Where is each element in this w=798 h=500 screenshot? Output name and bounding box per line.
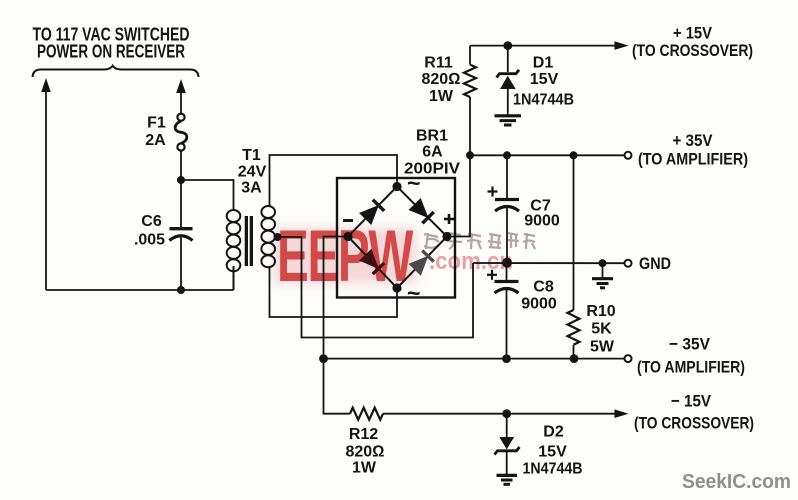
label F1 2A <box>145 115 166 150</box>
wire: secondary top to bridge AC top <box>270 155 398 207</box>
svg-text:1N4744B: 1N4744B <box>513 92 574 109</box>
svg-text:R11: R11 <box>424 55 453 72</box>
arrow head right input <box>176 79 186 93</box>
label C8 9000 <box>521 279 557 313</box>
junction dot D2 top <box>502 409 511 418</box>
svg-text:200PIV: 200PIV <box>404 161 460 178</box>
svg-text:2A: 2A <box>145 132 166 149</box>
label -35V (TO AMPLIFIER) <box>637 335 745 377</box>
label C7 9000 <box>524 198 560 230</box>
svg-text:~: ~ <box>407 280 420 306</box>
wire: +15V rail <box>470 45 615 47</box>
svg-text:15V: 15V <box>530 71 559 88</box>
label R11 820ohm 1W <box>422 55 461 106</box>
svg-text:− 15V: − 15V <box>671 392 712 411</box>
diode bridge lower-left <box>360 250 384 274</box>
junction dots +35V rail <box>466 151 578 159</box>
svg-text:1W: 1W <box>429 88 454 105</box>
svg-text:.005: .005 <box>134 232 165 249</box>
svg-text:1W: 1W <box>352 460 377 477</box>
arrow head left input <box>41 78 51 92</box>
label +35V (TO AMPLIFIER) <box>638 131 748 169</box>
svg-text:.com.cn: .com.cn <box>429 248 513 275</box>
brace <box>33 66 199 77</box>
junction dot D1 top <box>503 41 512 50</box>
label -15V (TO CROSSOVER) <box>634 392 754 433</box>
svg-text:D1: D1 <box>533 55 554 72</box>
svg-text:5W: 5W <box>590 339 615 356</box>
resistor R12 <box>350 408 383 420</box>
junction dot C6 bottom <box>177 286 185 294</box>
svg-text:BR1: BR1 <box>416 128 448 145</box>
capacitor C7 <box>495 155 519 262</box>
svg-text:D2: D2 <box>543 424 564 441</box>
svg-text:820Ω: 820Ω <box>422 71 461 88</box>
label C6 .005 <box>134 213 165 249</box>
svg-text:(TO AMPLIFIER): (TO AMPLIFIER) <box>638 150 748 169</box>
wire: -35V rail <box>324 358 625 360</box>
svg-text:24V: 24V <box>238 164 267 181</box>
label R12 820ohm 1W <box>346 426 385 477</box>
wire: bottom horizontal to transformer primary <box>46 289 234 291</box>
svg-text:(TO CROSSOVER): (TO CROSSOVER) <box>634 414 754 433</box>
plus sign C7 <box>488 187 498 197</box>
wire: bridge minus to -35 rail <box>324 237 349 359</box>
svg-text:6A: 6A <box>422 144 443 161</box>
bridge corner node dots <box>343 182 451 293</box>
label D2 15V 1N4744B <box>523 424 583 478</box>
label BR1 6A 200PIV <box>404 128 460 178</box>
svg-text:3A: 3A <box>241 180 262 197</box>
label D1 15V 1N4744B <box>513 55 574 109</box>
wire: right input vertical above fuse <box>180 91 182 114</box>
plus sign C8 <box>487 270 497 280</box>
ground for D1 <box>495 116 522 125</box>
wire: +35V rail <box>470 154 625 156</box>
wire: center tap to ground rail <box>278 237 474 338</box>
diode bridge upper-right <box>409 199 433 223</box>
wire: -35 rail down to R12 row <box>324 359 351 414</box>
svg-text:F1: F1 <box>147 115 166 132</box>
resistor R11 <box>464 46 476 156</box>
arrow head +15V <box>615 41 629 50</box>
capacitor C8 <box>495 263 519 359</box>
svg-text:(TO CROSSOVER): (TO CROSSOVER) <box>632 41 753 60</box>
zener diode D2 <box>495 414 520 474</box>
junction dot fuse/primary <box>177 176 185 184</box>
transformer T1 core <box>245 216 253 266</box>
svg-text:POWER ON RECEIVER: POWER ON RECEIVER <box>37 42 185 62</box>
wire: bridge plus up to +35 rail <box>447 155 470 236</box>
label T1 24V 3A <box>238 147 267 197</box>
svg-text:+ 15V: + 15V <box>673 24 713 43</box>
diode bridge lower-right <box>409 251 433 275</box>
svg-text:1N4744B: 1N4744B <box>523 461 583 478</box>
ground for D2 <box>497 475 518 484</box>
capacitor C6 <box>170 229 193 290</box>
svg-text:SeekIC.com: SeekIC.com <box>682 471 791 493</box>
terminal GND circle <box>625 260 632 267</box>
svg-text:R12: R12 <box>349 426 378 443</box>
label +15V (TO CROSSOVER) <box>632 24 753 61</box>
svg-text:T1: T1 <box>242 147 261 164</box>
arrow head -15V <box>615 409 629 418</box>
svg-text:+ 35V: + 35V <box>673 131 714 150</box>
wire: GND rail <box>473 262 624 264</box>
resistor R10 <box>568 155 580 358</box>
junction dot center tap <box>274 233 282 241</box>
terminal +35V circle <box>625 152 632 159</box>
svg-text:− 35V: − 35V <box>669 335 711 354</box>
svg-text:5K: 5K <box>591 321 612 338</box>
svg-text:GND: GND <box>639 254 671 273</box>
svg-text:9000: 9000 <box>524 213 560 230</box>
svg-text:C6: C6 <box>141 213 162 230</box>
bridge diamond wires <box>348 187 447 289</box>
label: TO 117 VAC SWITCHED POWER ON RECEIVER <box>33 25 190 62</box>
bridge plus label <box>444 214 454 224</box>
fuse F1 <box>175 114 187 151</box>
transformer T1 secondary winding <box>261 206 275 267</box>
svg-text:15V: 15V <box>538 444 567 461</box>
svg-text:9000: 9000 <box>521 296 557 313</box>
junction dot gnd symbol <box>599 259 607 267</box>
transformer T1 primary winding <box>227 210 241 290</box>
bridge minus label <box>343 219 353 222</box>
svg-text:C8: C8 <box>533 279 554 296</box>
junction dot C7/C8 <box>502 258 512 268</box>
terminal -35V circle <box>625 355 632 362</box>
watermark chinese squiggles <box>424 233 535 249</box>
zener diode D1 <box>497 46 520 115</box>
ground symbol at rail <box>592 263 613 288</box>
wire: -15V rail <box>383 413 615 415</box>
wire: secondary bottom to bridge AC bottom <box>270 266 398 317</box>
svg-text:820Ω: 820Ω <box>346 444 385 461</box>
svg-text:(TO AMPLIFIER): (TO AMPLIFIER) <box>637 358 745 377</box>
label R10 5K 5W <box>586 303 615 356</box>
wire: left input vertical <box>45 90 47 290</box>
bridge BR1 box <box>337 178 455 298</box>
svg-text:R10: R10 <box>586 303 615 320</box>
diode bridge upper-left <box>360 200 384 224</box>
wire: fuse to junction <box>180 150 182 228</box>
wire: junction to primary top <box>181 180 234 211</box>
junction dots -35V rail <box>319 354 578 363</box>
